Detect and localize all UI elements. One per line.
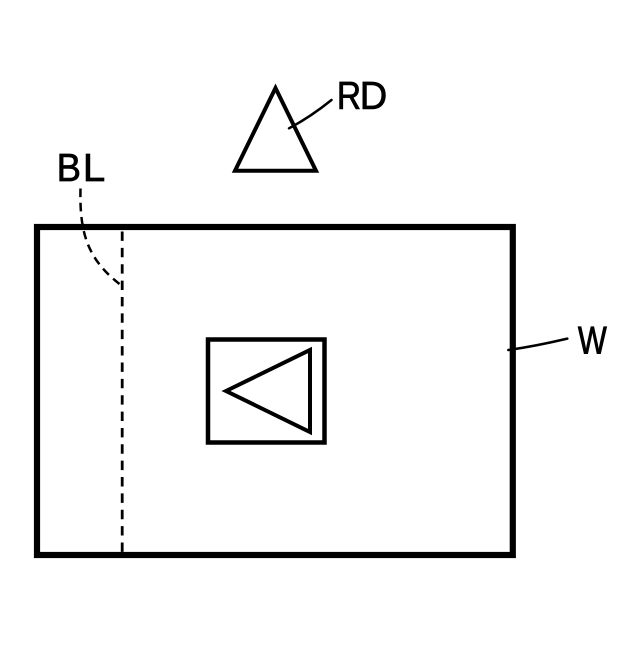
inner rectangle (die region)	[208, 340, 325, 443]
leader line RD	[289, 100, 332, 128]
dashed leader BL	[80, 189, 119, 285]
dashed line BL (boundary line)	[121, 232, 124, 553]
inner triangle (orientation mark)	[226, 350, 310, 432]
triangle RD (dispenser)	[235, 88, 316, 171]
rectangle W (wafer)	[37, 227, 513, 555]
label RD	[340, 82, 360, 109]
leader line W	[508, 339, 567, 350]
label BL	[60, 154, 79, 181]
label W	[578, 327, 607, 354]
